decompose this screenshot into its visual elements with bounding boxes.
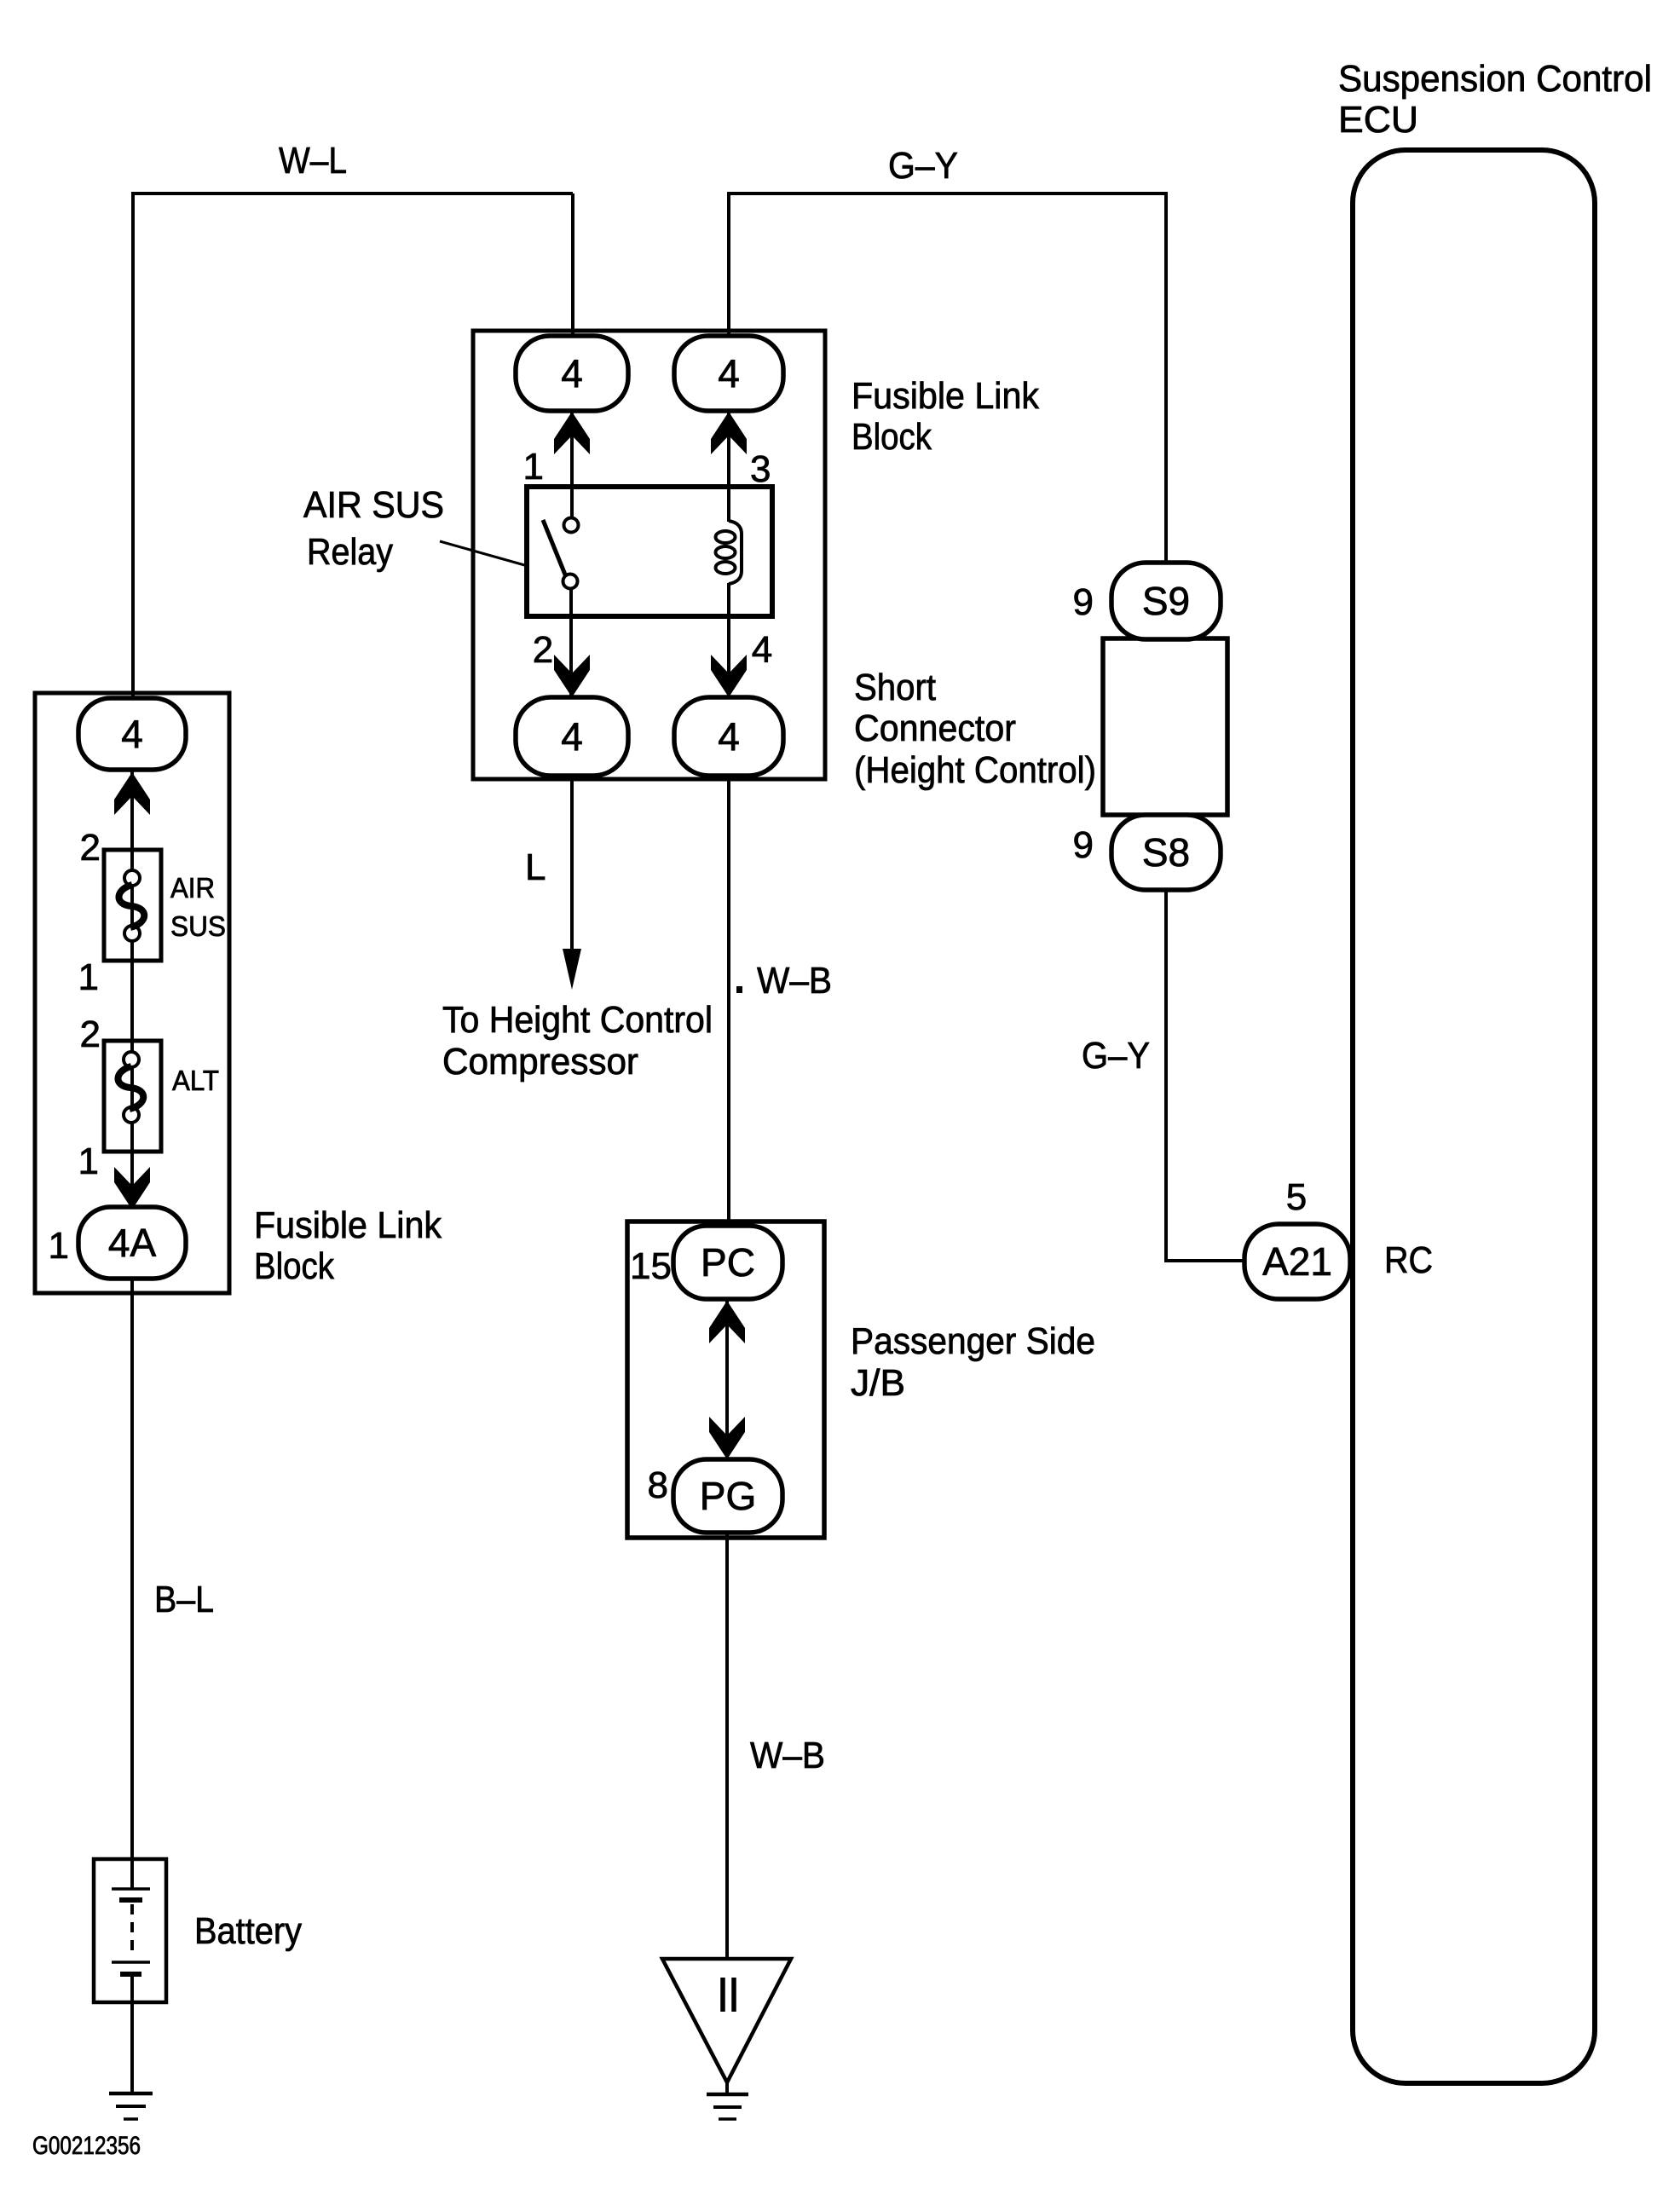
svg-text:S8: S8 (1142, 830, 1190, 875)
svg-text:To Height Control: To Height Control (442, 999, 713, 1041)
svg-text:W–L: W–L (279, 140, 347, 182)
svg-text:G–Y: G–Y (888, 145, 958, 187)
svg-text:2: 2 (533, 629, 553, 671)
svg-text:1: 1 (78, 1141, 99, 1182)
svg-text:Fusible Link: Fusible Link (254, 1204, 442, 1246)
svg-text:4A: 4A (108, 1221, 157, 1265)
svg-text:1: 1 (523, 446, 544, 488)
svg-text:S9: S9 (1142, 579, 1190, 623)
svg-text:Fusible Link: Fusible Link (852, 375, 1040, 417)
svg-text:PC: PC (701, 1240, 755, 1285)
svg-text:J/B: J/B (851, 1362, 905, 1404)
svg-text:G–Y: G–Y (1082, 1035, 1150, 1077)
svg-text:Short: Short (854, 667, 936, 708)
svg-text:Compressor: Compressor (442, 1041, 638, 1083)
svg-text:Block: Block (254, 1245, 335, 1287)
svg-text:3: 3 (750, 448, 771, 490)
svg-text:4: 4 (718, 714, 740, 759)
svg-text:9: 9 (1073, 581, 1094, 623)
svg-text:5: 5 (1286, 1176, 1307, 1218)
svg-text:1: 1 (78, 956, 99, 998)
svg-text:Battery: Battery (194, 1910, 302, 1952)
svg-text:A21: A21 (1262, 1239, 1332, 1284)
svg-text:G00212356: G00212356 (32, 2132, 141, 2160)
svg-text:8: 8 (648, 1464, 668, 1506)
svg-text:(Height Control): (Height Control) (854, 749, 1096, 791)
svg-text:ECU: ECU (1338, 99, 1418, 141)
svg-text:ALT: ALT (172, 1065, 219, 1096)
svg-text:15: 15 (630, 1245, 672, 1287)
svg-text:2: 2 (80, 827, 101, 869)
svg-text:Suspension Control: Suspension Control (1338, 58, 1652, 100)
svg-text:4: 4 (121, 712, 143, 756)
svg-text:Block: Block (852, 416, 932, 458)
svg-text:4: 4 (752, 629, 772, 671)
svg-text:SUS: SUS (170, 910, 226, 942)
svg-text:AIR SUS: AIR SUS (303, 484, 444, 526)
svg-text:AIR: AIR (170, 872, 215, 904)
svg-text:W–B: W–B (757, 960, 832, 1002)
svg-text:Connector: Connector (854, 707, 1016, 749)
svg-text:Passenger Side: Passenger Side (851, 1320, 1095, 1362)
svg-text:2: 2 (80, 1013, 101, 1055)
svg-text:4: 4 (561, 714, 583, 759)
svg-text:W–B: W–B (750, 1735, 825, 1776)
svg-text:1: 1 (49, 1225, 69, 1267)
svg-text:4: 4 (561, 351, 583, 396)
svg-text:B–L: B–L (154, 1579, 214, 1620)
svg-text:9: 9 (1073, 824, 1094, 866)
svg-text:4: 4 (718, 351, 740, 396)
svg-text:RC: RC (1384, 1239, 1433, 1281)
svg-text:L: L (525, 846, 546, 888)
svg-text:Relay: Relay (307, 531, 393, 573)
svg-text:PG: PG (700, 1474, 756, 1518)
